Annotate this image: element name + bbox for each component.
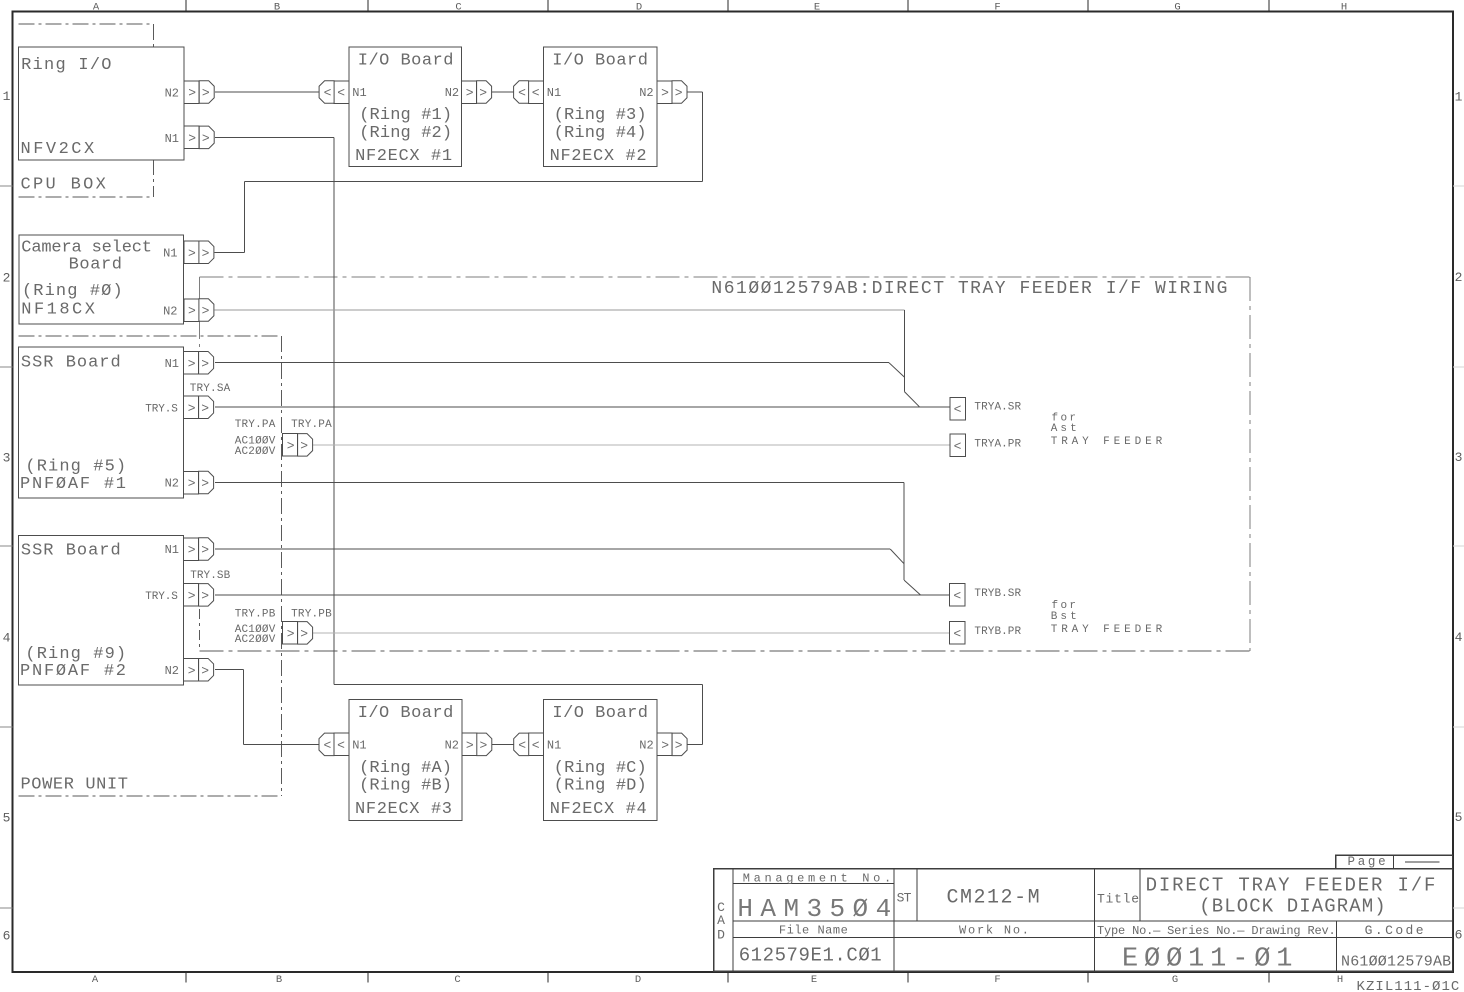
svg-text:Type No.— Series No.— Drawing: Type No.— Series No.— Drawing Rev. <box>1097 924 1336 938</box>
svg-text:4: 4 <box>1455 630 1463 645</box>
svg-text:G: G <box>1174 2 1180 14</box>
svg-text:N1: N1 <box>547 739 561 753</box>
svg-text:H: H <box>1341 2 1347 14</box>
svg-text:<: < <box>953 627 961 642</box>
svg-text:AC2ØØV: AC2ØØV <box>235 446 276 458</box>
svg-text:>: > <box>202 131 210 146</box>
svg-text:C: C <box>454 974 460 986</box>
svg-text:POWER UNIT: POWER UNIT <box>21 776 129 795</box>
svg-text:>: > <box>188 543 196 558</box>
svg-text:F: F <box>994 2 1000 14</box>
svg-text:N2: N2 <box>639 739 653 753</box>
svg-text:CPU BOX: CPU BOX <box>21 176 106 195</box>
svg-text:KZIL111-Ø1C: KZIL111-Ø1C <box>1357 979 1460 992</box>
svg-text:N61ØØ12579AB: N61ØØ12579AB <box>1341 953 1451 970</box>
svg-text:F: F <box>994 974 1000 986</box>
svg-text:TRY.PA: TRY.PA <box>291 419 332 431</box>
svg-text:H: H <box>1337 974 1343 986</box>
svg-text:TRYA.PR: TRYA.PR <box>974 438 1021 450</box>
svg-text:(Ring #2): (Ring #2) <box>359 124 452 143</box>
svg-text:SSR Board: SSR Board <box>21 542 121 561</box>
svg-text:G: G <box>1172 974 1178 986</box>
svg-text:>: > <box>201 589 209 604</box>
svg-text:TRY.PB: TRY.PB <box>235 608 276 620</box>
svg-text:Board: Board <box>69 256 122 275</box>
svg-text:TRY.PB: TRY.PB <box>291 608 332 620</box>
svg-text:(Ring #B): (Ring #B) <box>359 777 452 796</box>
svg-text:D: D <box>717 928 725 943</box>
svg-text:>: > <box>202 86 210 101</box>
svg-text:>: > <box>201 401 209 416</box>
svg-text:<: < <box>532 738 540 753</box>
svg-text:TRY.PA: TRY.PA <box>235 419 276 431</box>
svg-text:>: > <box>202 304 210 319</box>
svg-text:HAM35Ø4: HAM35Ø4 <box>737 894 891 924</box>
svg-text:SSR Board: SSR Board <box>21 353 121 372</box>
svg-text:A: A <box>93 2 100 14</box>
svg-text:(Ring #Ø): (Ring #Ø) <box>22 282 123 301</box>
svg-text:(Ring #4): (Ring #4) <box>554 124 647 143</box>
svg-text:(Ring #1): (Ring #1) <box>359 106 452 125</box>
svg-text:6: 6 <box>3 929 11 944</box>
svg-text:N2: N2 <box>639 86 653 100</box>
svg-text:>: > <box>201 356 209 371</box>
svg-text:4: 4 <box>3 631 11 646</box>
svg-text:N2: N2 <box>165 664 179 678</box>
svg-text:(Ring #5): (Ring #5) <box>25 458 126 477</box>
svg-text:Ring I/O: Ring I/O <box>21 56 111 75</box>
svg-text:>: > <box>201 476 209 491</box>
svg-text:D: D <box>635 974 641 986</box>
svg-text:PNFØAF #2: PNFØAF #2 <box>20 662 126 681</box>
svg-text:PNFØAF #1: PNFØAF #1 <box>20 475 126 494</box>
svg-text:<: < <box>954 439 962 454</box>
svg-text:1: 1 <box>1455 89 1463 104</box>
svg-text:TRYA.SR: TRYA.SR <box>974 402 1021 414</box>
svg-text:>: > <box>675 86 683 101</box>
svg-text:3: 3 <box>3 451 11 466</box>
svg-text:N2: N2 <box>163 304 177 318</box>
svg-text:>: > <box>188 401 196 416</box>
svg-text:A: A <box>92 974 99 986</box>
svg-text:I/O Board: I/O Board <box>552 52 648 71</box>
svg-text:N1: N1 <box>547 86 561 100</box>
svg-text:>: > <box>188 304 196 319</box>
svg-text:<: < <box>337 738 345 753</box>
svg-text:<: < <box>954 402 962 417</box>
svg-text:(Ring #D): (Ring #D) <box>554 777 647 796</box>
svg-text:I/O Board: I/O Board <box>552 704 648 723</box>
svg-text:TRYB.SR: TRYB.SR <box>974 588 1021 600</box>
svg-text:>: > <box>661 86 669 101</box>
svg-text:ST: ST <box>897 890 912 905</box>
svg-text:NF2ECX #1: NF2ECX #1 <box>355 147 452 166</box>
svg-text:(Ring #3): (Ring #3) <box>554 106 647 125</box>
svg-text:612579E1.CØ1: 612579E1.CØ1 <box>739 945 882 967</box>
svg-text:>: > <box>188 476 196 491</box>
svg-text:>: > <box>188 589 196 604</box>
svg-text:Work No.: Work No. <box>959 924 1029 938</box>
svg-text:(Ring #9): (Ring #9) <box>25 645 126 664</box>
svg-text:C: C <box>455 2 461 14</box>
svg-text:>: > <box>466 86 474 101</box>
svg-text:Bst: Bst <box>1051 611 1077 623</box>
svg-text:I/O Board: I/O Board <box>358 704 454 723</box>
svg-text:6: 6 <box>1455 928 1463 943</box>
svg-text:Camera select: Camera select <box>21 238 152 257</box>
svg-text:1: 1 <box>3 89 11 104</box>
svg-text:<: < <box>532 86 540 101</box>
svg-text:N2: N2 <box>165 477 179 491</box>
svg-text:(Ring #A): (Ring #A) <box>359 759 452 778</box>
svg-text:>: > <box>188 131 196 146</box>
svg-text:N2: N2 <box>445 739 459 753</box>
svg-text:<: < <box>518 86 526 101</box>
svg-text:3: 3 <box>1455 450 1463 465</box>
svg-text:N2: N2 <box>165 86 179 100</box>
svg-text:N1: N1 <box>352 739 366 753</box>
svg-text:>: > <box>188 246 196 261</box>
svg-text:>: > <box>287 439 295 454</box>
svg-text:DIRECT TRAY FEEDER I/F: DIRECT TRAY FEEDER I/F <box>1146 875 1436 897</box>
svg-text:TRY.SB: TRY.SB <box>190 570 230 582</box>
svg-text:>: > <box>661 738 669 753</box>
svg-text:>: > <box>466 738 474 753</box>
svg-text:N1: N1 <box>165 357 179 371</box>
svg-text:A: A <box>717 913 725 928</box>
svg-text:<: < <box>953 589 961 604</box>
svg-text:>: > <box>479 738 487 753</box>
svg-text:<: < <box>518 738 526 753</box>
svg-text:<: < <box>337 86 345 101</box>
svg-text:<: < <box>324 86 332 101</box>
svg-text:(BLOCK DIAGRAM): (BLOCK DIAGRAM) <box>1199 896 1385 918</box>
svg-text:5: 5 <box>1455 810 1463 825</box>
svg-text:5: 5 <box>3 811 11 826</box>
svg-text:2: 2 <box>1455 270 1463 285</box>
svg-text:N1: N1 <box>163 247 177 261</box>
svg-text:TRY.S: TRY.S <box>145 403 178 415</box>
svg-text:TRY.SA: TRY.SA <box>190 383 231 395</box>
svg-text:CM212-M: CM212-M <box>947 887 1040 910</box>
svg-text:2: 2 <box>3 271 11 286</box>
svg-text:AC2ØØV: AC2ØØV <box>235 634 276 646</box>
svg-text:TRAY FEEDER: TRAY FEEDER <box>1051 436 1163 448</box>
svg-text:B: B <box>276 974 282 986</box>
svg-text:N1: N1 <box>165 543 179 557</box>
svg-text:>: > <box>287 627 295 642</box>
svg-text:>: > <box>188 356 196 371</box>
svg-text:TRAY FEEDER: TRAY FEEDER <box>1051 624 1163 636</box>
svg-text:D: D <box>636 2 642 14</box>
svg-text:N61ØØ12579AB:DIRECT TRAY FEEDE: N61ØØ12579AB:DIRECT TRAY FEEDER I/F WIRI… <box>711 279 1227 299</box>
svg-text:N2: N2 <box>445 86 459 100</box>
svg-text:>: > <box>300 439 308 454</box>
svg-text:E: E <box>814 2 820 14</box>
svg-text:<: < <box>323 738 331 753</box>
svg-text:N1: N1 <box>352 86 366 100</box>
svg-text:E: E <box>811 974 817 986</box>
svg-text:>: > <box>188 86 196 101</box>
svg-text:I/O Board: I/O Board <box>358 52 454 71</box>
svg-text:Title: Title <box>1097 892 1139 907</box>
svg-text:>: > <box>201 543 209 558</box>
svg-text:TRY.S: TRY.S <box>145 591 178 603</box>
svg-text:>: > <box>202 246 210 261</box>
svg-text:Ast: Ast <box>1051 423 1077 435</box>
svg-text:(Ring #C): (Ring #C) <box>554 759 647 778</box>
svg-text:TRYB.PR: TRYB.PR <box>974 626 1021 638</box>
svg-text:N1: N1 <box>165 132 179 146</box>
svg-text:B: B <box>274 2 280 14</box>
svg-text:NF2ECX #2: NF2ECX #2 <box>550 147 647 166</box>
svg-text:>: > <box>479 86 487 101</box>
svg-text:>: > <box>188 663 196 678</box>
svg-text:NF2ECX #3: NF2ECX #3 <box>355 800 452 819</box>
svg-text:>: > <box>201 663 209 678</box>
svg-text:NF2ECX #4: NF2ECX #4 <box>550 800 647 819</box>
svg-text:File Name: File Name <box>779 924 848 938</box>
svg-text:>: > <box>300 627 308 642</box>
svg-text:>: > <box>675 738 683 753</box>
